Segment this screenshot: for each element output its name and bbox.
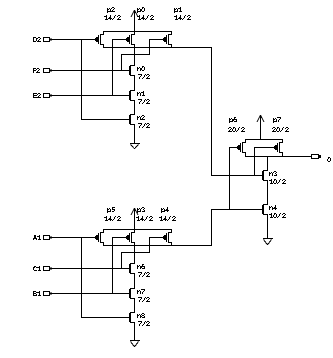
wire p4 drain stub [171,243,173,246]
transistor p2 (PMOS) [95,34,104,45]
wire F2 riser to p1 gate [121,39,163,71]
label n7 value 7/2 [138,297,150,302]
wire n3 drain to output [267,157,269,170]
power VDD arrow bottom NAND [131,208,138,230]
wire n2 source to ground [134,125,136,143]
wire B1 riser to p3 gate [112,237,126,294]
label n0 value 7/2 [138,74,150,79]
label n0 [137,66,145,71]
wire VDD rail top NAND [103,31,172,33]
label p4 [161,207,169,213]
wire n7 source to n8 drain [134,299,136,312]
label n8 [137,313,145,318]
power VDD arrow output stage [257,115,264,140]
label p5 [107,207,115,213]
input port C1 [33,266,52,271]
wire E2 to n1 gate [52,95,130,97]
wire out1 riser to p7 gate [254,147,274,176]
label p0 [137,7,145,13]
wire F2 to n0 gate [52,70,130,72]
wire p6 source stub [245,140,247,143]
wire C1 to n6 gate [52,268,130,270]
wire p4 source stub [171,230,173,233]
wire D2 to p2 gate [52,39,96,41]
wire drain rail top NAND (node out1) [103,47,212,49]
power VDD arrow top NAND [131,10,138,32]
wire p6 drain stub [245,153,247,157]
label n1 [137,91,145,96]
label p3 [137,207,145,213]
transistor n2 (NMOS) [130,114,136,125]
label n4 [269,205,277,210]
wire n0 source to n1 drain [134,76,136,90]
wire output node 0 line [245,156,311,158]
label n8 value 7/2 [138,321,150,326]
wire p5 drain stub [103,243,105,246]
wire n8 source to ground [134,323,136,340]
transistor n4 (NMOS) [263,204,269,215]
transistor n3 (NMOS) [263,170,269,181]
wire VDD rail output stage [245,139,283,141]
label n6 value 7/2 [138,272,150,277]
label n4 value 10/2 [269,213,286,218]
transistor p7 (PMOS) [274,142,283,153]
wire n1 source to n2 drain [134,101,136,114]
transistor n1 (NMOS) [130,90,136,101]
wire p7 drain stub [282,153,284,157]
wire p2 drain stub [103,45,105,48]
label n7 [137,289,145,294]
label p7 [273,117,281,123]
label p7 value 20/2 [272,127,289,132]
wire p3 drain / n6 drain link [134,243,136,263]
transistor n6 (NMOS) [130,263,136,274]
label p0 value 14/2 [137,15,154,20]
input port E2 [33,93,52,98]
transistor p6 (PMOS) [237,142,246,153]
wire drain rail bottom NAND (node out2) [103,245,212,247]
wire C1 riser to p4 gate [121,237,163,269]
wire p1 drain stub [171,45,173,48]
wire A1 to p5 gate [52,237,96,239]
wire A1 riser to n8 gate [81,237,130,318]
input port F2 [33,68,52,73]
transistor p0 (PMOS) [126,34,135,45]
label n3 value 10/2 [269,179,286,184]
label n2 value 7/2 [138,123,150,128]
wire B1 to n7 gate [52,293,130,295]
transistor n7 (NMOS) [130,288,136,299]
wire node out2 to n4 gate [211,209,263,246]
wire p0 drain / n0 drain link [134,45,136,65]
wire p0 source to VDD rail [134,32,136,35]
transistor p3 (PMOS) [126,232,135,243]
wire p5 source stub [103,230,105,233]
input port B1 [33,291,52,296]
transistor n0 (NMOS) [130,65,136,76]
wire n3 source to n4 drain [267,181,269,204]
wire p7 source stub [282,140,284,143]
wire p1 source stub [171,32,173,35]
transistor p5 (PMOS) [95,232,104,243]
wire node out1 to n3 gate [211,47,263,176]
label p6 value 20/2 [228,127,245,132]
transistor p4 (PMOS) [163,232,172,243]
ground symbol top NAND [130,144,140,149]
ground symbol output stage [263,239,273,245]
wire D2 riser to n2 gate [81,39,130,120]
wire p2 source stub [103,32,105,35]
label n3 [269,171,277,176]
label p5 value 14/2 [104,216,121,221]
label p2 value 14/2 [104,15,121,20]
wire VDD rail bottom NAND [103,229,172,231]
input port D2 [33,37,52,42]
output port 0 [312,155,332,163]
transistor p1 (PMOS) [163,34,172,45]
wire n6 source to n7 drain [134,274,136,288]
label n1 value 7/2 [138,99,150,104]
label n6 [137,264,145,269]
label p1 [174,7,182,13]
label p4 value 14/2 [159,216,176,221]
wire out2 riser to p6 gate [229,147,237,210]
wire p3 source to VDD rail [134,230,136,233]
label n2 [137,115,145,120]
transistor n8 (NMOS) [130,312,136,323]
wire E2 riser to p0 gate [112,39,126,96]
input port A1 [33,235,52,240]
label p3 value 14/2 [136,216,153,221]
ground symbol bottom NAND [130,341,140,347]
label p2 [107,7,115,13]
wire n4 source to ground [267,215,269,238]
label p1 value 14/2 [174,15,191,20]
label p6 [229,117,237,123]
